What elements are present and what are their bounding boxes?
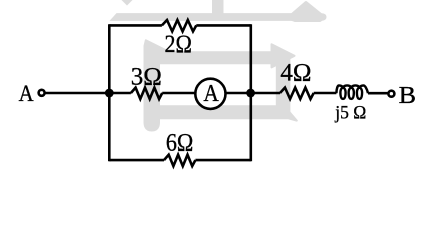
terminal A circle	[39, 90, 45, 96]
inductor L j5ohm	[336, 85, 368, 99]
watermark top triangle	[288, 3, 324, 21]
wire inductor to B	[368, 92, 388, 95]
resistor R 4ohm	[280, 88, 314, 99]
watermark top tab	[212, 0, 224, 14]
wire left vertical	[108, 24, 111, 161]
terminal B circle	[388, 91, 394, 97]
wire top rail right	[196, 24, 251, 27]
wire right junction to 4ohm	[251, 92, 280, 95]
ammeter U1 circle	[195, 79, 225, 109]
wire top rail left	[109, 24, 162, 27]
wire right vertical	[250, 24, 253, 161]
svg-text:4Ω: 4Ω	[280, 60, 311, 87]
watermark	[110, 0, 327, 131]
watermark top bar	[110, 13, 327, 21]
wire bottom rail left	[109, 159, 164, 162]
node right junction	[246, 89, 255, 98]
svg-text:B: B	[399, 83, 416, 109]
resistor R 6ohm	[164, 155, 195, 166]
wire 4ohm to inductor	[314, 92, 337, 95]
watermark left arrow (vertical bar + right arrow)	[145, 40, 295, 130]
svg-text:6Ω: 6Ω	[166, 129, 194, 156]
svg-text:3Ω: 3Ω	[131, 63, 162, 90]
resistor R 2ohm	[162, 20, 196, 31]
svg-text:2Ω: 2Ω	[164, 31, 192, 58]
svg-text:j5 Ω: j5 Ω	[334, 103, 366, 123]
resistor R 3ohm	[131, 88, 162, 99]
watermark right vertical bar	[276, 56, 291, 118]
node left junction	[105, 89, 114, 98]
svg-text:A: A	[203, 81, 219, 107]
wire A to left junction	[45, 92, 110, 95]
wire mid left	[109, 92, 131, 95]
watermark lower bar with SE tip	[159, 106, 297, 120]
svg-text:A: A	[19, 81, 34, 106]
watermark small wedge	[122, 0, 133, 6]
wire to ammeter	[162, 92, 195, 95]
wire ammeter to right junction	[226, 92, 251, 95]
wire bottom rail right	[195, 159, 250, 162]
